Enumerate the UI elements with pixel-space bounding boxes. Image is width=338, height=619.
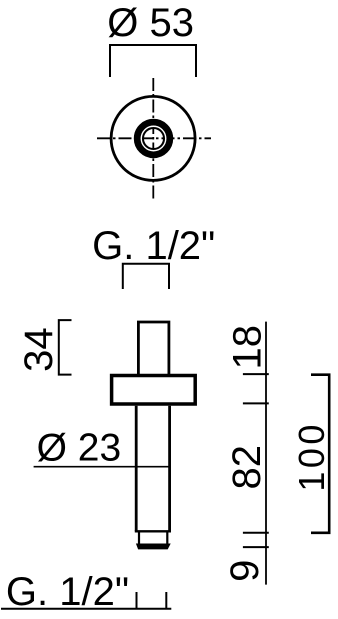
svg-text:9: 9	[223, 560, 267, 582]
svg-text:82: 82	[225, 445, 269, 490]
svg-text:34: 34	[17, 327, 61, 372]
svg-text:Ø 23: Ø 23	[37, 427, 122, 470]
svg-text:100: 100	[291, 421, 332, 492]
svg-text:G. 1/2": G. 1/2"	[6, 570, 129, 614]
svg-text:Ø 53: Ø 53	[107, 1, 194, 45]
svg-text:18: 18	[226, 325, 270, 370]
svg-text:G. 1/2": G. 1/2"	[92, 224, 215, 268]
